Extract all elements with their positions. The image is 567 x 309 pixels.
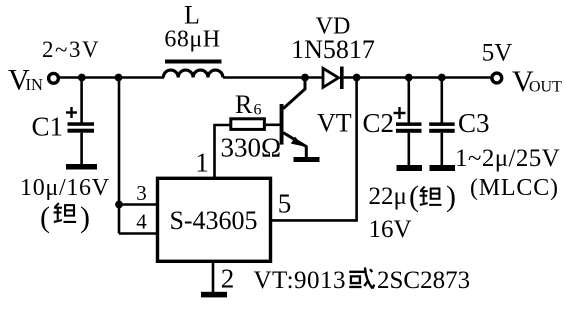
svg-text:16V: 16V [369, 216, 412, 243]
wire pin 5 to output node [271, 79, 357, 220]
svg-text:OUT: OUT [529, 79, 562, 96]
svg-text:(: ( [409, 180, 419, 213]
svg-text:L: L [184, 1, 200, 30]
svg-text:S-43605: S-43605 [169, 206, 257, 235]
ground C3 [430, 165, 456, 171]
wire pin 1 to R6 [215, 125, 230, 178]
svg-text:1~2μ/25V: 1~2μ/25V [455, 145, 560, 172]
svg-text:C2: C2 [363, 108, 395, 138]
svg-text:330Ω: 330Ω [221, 133, 282, 163]
svg-text:(MLCC): (MLCC) [470, 175, 559, 201]
wire pin 3 [119, 203, 158, 206]
wire inductor to diode [223, 76, 323, 79]
ground C2 [397, 165, 423, 171]
note VT 9013 or 2SC2873 [254, 267, 471, 294]
svg-text:VT: VT [317, 109, 352, 138]
svg-text:3: 3 [136, 181, 147, 205]
svg-text:): ) [446, 180, 456, 213]
ground emitter VT [294, 157, 320, 162]
svg-text:10μ/16V: 10μ/16V [20, 175, 110, 201]
IC U1 S-43605 [158, 178, 271, 261]
svg-text:R: R [235, 90, 253, 119]
svg-text:5: 5 [278, 188, 292, 218]
svg-text:2: 2 [221, 264, 235, 294]
wire R6 to base [266, 124, 280, 127]
junction output/pin5 [353, 74, 361, 82]
wire to IC pins 3 and 4 [118, 78, 121, 234]
label R6 [235, 90, 262, 119]
capacitor C3 [429, 78, 455, 166]
label 22u tantalum [369, 180, 457, 213]
output terminal VOUT [492, 73, 502, 83]
diode VD [323, 67, 344, 90]
svg-text:22μ: 22μ [369, 183, 407, 210]
svg-text:6: 6 [254, 102, 262, 119]
inductor L [163, 60, 223, 78]
wire pin 4 [119, 232, 158, 235]
svg-text:): ) [80, 201, 90, 234]
label VOUT [512, 65, 562, 98]
svg-text:2~3V: 2~3V [42, 37, 100, 62]
svg-text:C3: C3 [458, 108, 490, 138]
input terminal VIN [49, 73, 59, 83]
label VIN [8, 64, 43, 97]
junction output/C3 [438, 74, 446, 82]
svg-text:VT:9013: VT:9013 [254, 267, 347, 294]
svg-text:1: 1 [195, 147, 209, 177]
junction input/C1 [78, 74, 86, 82]
wire diode to output [344, 76, 491, 79]
svg-text:5V: 5V [482, 40, 513, 67]
transistor VT [280, 79, 307, 158]
ground pin 2 [201, 292, 227, 298]
ground C1 [66, 164, 97, 170]
svg-text:IN: IN [26, 75, 43, 94]
resistor R6 [231, 119, 265, 130]
svg-text:C1: C1 [32, 112, 64, 142]
polarity plus C2 [394, 107, 406, 119]
svg-text:68μH: 68μH [164, 26, 220, 52]
label tantalum C1 [40, 201, 90, 234]
capacitor C1 [68, 78, 95, 165]
junction collector node [301, 74, 309, 82]
junction pin3 [115, 201, 123, 209]
junction input/IC supply [115, 74, 123, 82]
svg-text:2SC2873: 2SC2873 [377, 267, 470, 294]
svg-text:1N5817: 1N5817 [291, 35, 375, 64]
wire input to inductor [60, 76, 165, 79]
svg-text:(: ( [40, 201, 50, 234]
junction output/C2 [405, 74, 413, 82]
wire pin 2 [212, 261, 215, 292]
capacitor C2 [396, 78, 422, 166]
svg-text:4: 4 [136, 210, 147, 234]
polarity plus C1 [66, 107, 77, 118]
